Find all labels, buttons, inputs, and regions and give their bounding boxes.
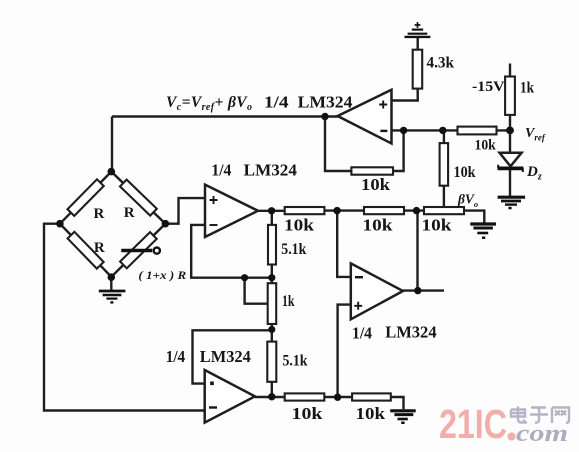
svg-text:com: com <box>516 421 568 447</box>
svg-text:21IC: 21IC <box>439 401 507 447</box>
